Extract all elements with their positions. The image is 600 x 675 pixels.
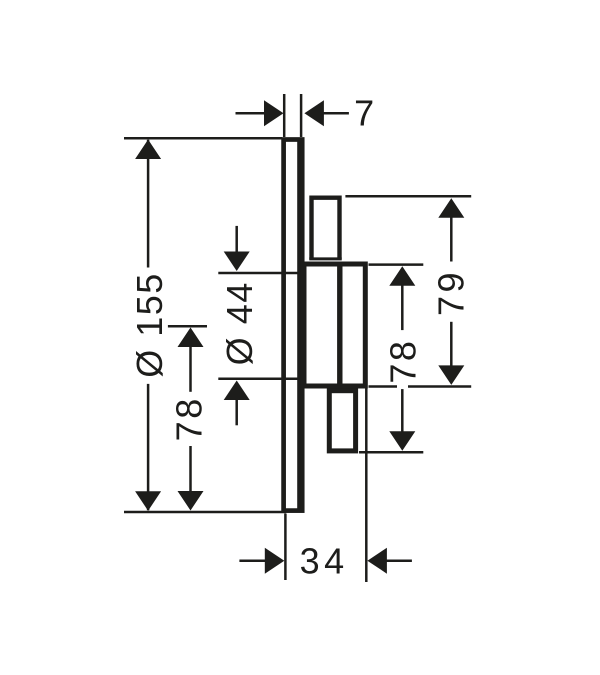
dimension 78 left : line lower segment (189, 446, 192, 492)
dimension 78 right : line upper segment (401, 284, 404, 330)
dimension 34 : right arrow (left-pointing) (367, 548, 387, 574)
dimension 78 right : top arrow (up) (389, 266, 415, 286)
dimension O155 : top arrow (135, 140, 161, 160)
dimension 7 : right tail (322, 112, 349, 115)
dimension 79 : top arrow (up) (438, 198, 464, 218)
dimension O155 : bottom arrow (135, 491, 161, 511)
dimension 34 : left tail (239, 559, 266, 562)
dimension 7 : extension line left (283, 94, 286, 137)
svg-text:78: 78 (383, 339, 424, 384)
dimension 78 right : bottom arrow (down) (389, 431, 415, 451)
dimension O155 / 78 : bottom extension line (124, 511, 286, 514)
dimension 78 right : line lower segment (401, 389, 404, 434)
dimension 78 left : bottom arrow (down) (178, 491, 204, 511)
block internal division line (337, 264, 342, 386)
dimension 79 : bottom extension line (two segments, gap at 78 line) (369, 385, 398, 388)
dimension O155 : line upper segment (147, 140, 150, 268)
svg-text:Ø 44: Ø 44 (219, 281, 260, 365)
dimension 7 : extension line right (300, 94, 303, 137)
dimension 7 : left tail (236, 112, 267, 115)
svg-text:Ø 155: Ø 155 (129, 272, 170, 378)
dimension 78 left : origin tick (168, 325, 207, 328)
dimension 79 : line lower segment (450, 322, 453, 367)
svg-text:79: 79 (431, 269, 472, 316)
lower button (bottom small rect) (329, 391, 355, 451)
dimension 34 : left arrow (right-pointing) (265, 548, 285, 574)
dimension O44 : top extension line (218, 272, 298, 275)
dimension 79 : top extension line (345, 195, 471, 198)
dimension 79 : line upper segment (450, 216, 453, 262)
dimension O44 : bottom extension line (218, 378, 298, 381)
svg-text:7: 7 (354, 93, 374, 134)
dimension 7 : left arrow (264, 100, 284, 126)
svg-text:78: 78 (169, 396, 210, 441)
dimension 34 : right extension line (365, 389, 368, 583)
dimension 7 : right arrow (304, 100, 324, 126)
dimension O44 : upper arrow (down, outside) (224, 252, 250, 272)
upper button (top small rect, open bottom) (312, 198, 340, 260)
dimension 78 left : top arrow (up) (178, 328, 204, 348)
valve body block (304, 264, 365, 386)
dimension O155 : top extension line (124, 137, 282, 140)
dimension O44 : upper line above arrow (235, 226, 238, 253)
dimension 78 left : line upper segment (189, 345, 192, 392)
dimension O44 : lower line below arrow (235, 399, 238, 425)
plate inner face line (297, 141, 300, 510)
dimension 78 right : top extension line (369, 263, 424, 266)
dimension 79 : bottom arrow (down) (438, 365, 464, 385)
upper button bottom edge (309, 257, 341, 260)
dimension 34 : left extension line (284, 514, 287, 581)
dimension O44 : lower arrow (up, outside) (224, 381, 250, 401)
svg-text:34: 34 (300, 541, 349, 582)
escutcheon plate outer rectangle (284, 140, 303, 511)
dimension 78 right : bottom extension line (359, 451, 423, 454)
dimension O155 : line lower segment (147, 384, 150, 510)
dimension 34 : right tail (385, 559, 412, 562)
